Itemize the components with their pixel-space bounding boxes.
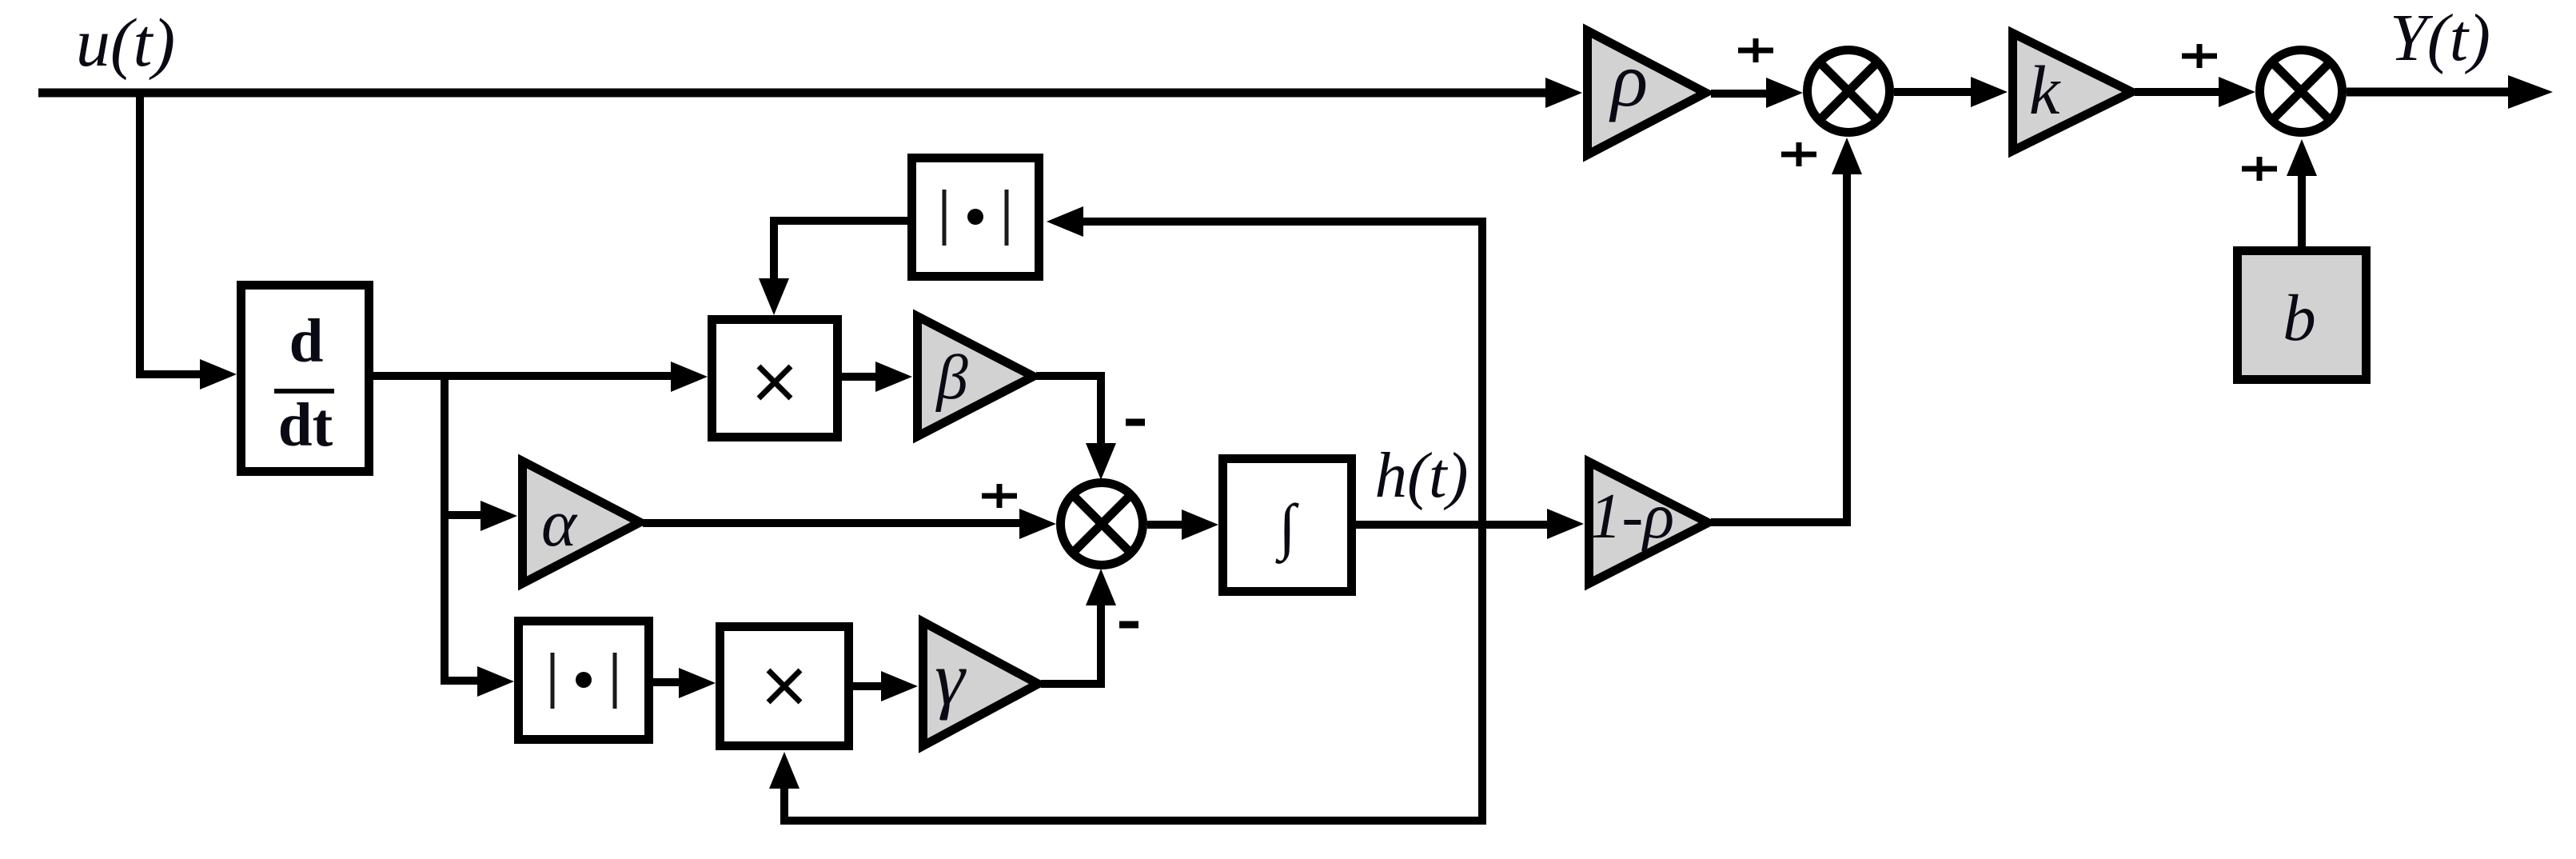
- svg-text:Y(t): Y(t): [2390, 1, 2490, 75]
- svg-text:1-ρ: 1-ρ: [1589, 480, 1674, 552]
- svg-text:β: β: [935, 343, 968, 413]
- svg-text:d: d: [289, 306, 324, 375]
- svg-text:h(t): h(t): [1375, 439, 1469, 511]
- svg-text:ρ: ρ: [1609, 37, 1648, 122]
- svg-text:α: α: [541, 486, 578, 561]
- svg-text:u(t): u(t): [76, 4, 175, 81]
- svg-text:b: b: [2283, 281, 2316, 354]
- svg-text:γ: γ: [935, 636, 967, 721]
- svg-text:dt: dt: [278, 390, 333, 459]
- svg-text:k: k: [2029, 51, 2061, 129]
- svg-text:∫: ∫: [1274, 491, 1299, 564]
